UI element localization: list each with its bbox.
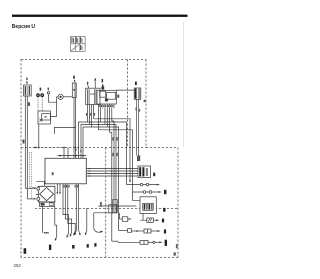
S1 bottom wires — [87, 105, 89, 123]
wire bus B2 — [81, 125, 116, 213]
wire to M1 lower terminal — [27, 198, 33, 200]
drop wire 6 — [86, 208, 87, 234]
capacitor K1 label — [135, 82, 137, 85]
wire bus B1 — [78, 122, 126, 185]
inline connector element on K1 wires — [137, 156, 140, 162]
K1 wire pair down — [136, 99, 138, 155]
arrowed wire to box B6 — [99, 205, 137, 207]
label inside central box — [52, 172, 54, 175]
label Ms on left wires — [23, 140, 25, 144]
curved arrow up right — [94, 229, 101, 233]
M1 terminal circles — [37, 187, 40, 190]
junction dots right column — [129, 180, 131, 182]
K1 wire labels — [136, 108, 137, 111]
arrow on divider left — [33, 147, 36, 149]
K2 bottom pin stubs — [98, 104, 114, 108]
S1 wire label marks — [86, 113, 95, 116]
switch block S1 — [86, 88, 100, 104]
step wire 3 — [68, 222, 75, 234]
legend table text marks — [71, 37, 82, 50]
step wire 1 — [63, 212, 69, 237]
wire up from K2 with arrow — [102, 85, 104, 90]
stub arrowheads — [57, 192, 59, 195]
K2 pin drops — [100, 108, 102, 122]
left rail — [54, 127, 76, 134]
blob on wire above K2 — [101, 87, 104, 90]
small box pair on rail — [113, 200, 118, 213]
wire to M1 upper terminal — [25, 187, 33, 189]
terminal circle A — [36, 93, 40, 97]
internal dashed divider vertical x=105.7 — [105, 148, 107, 258]
wire V1 to lamp loop — [51, 102, 57, 116]
internal dashed divider horizontal y=208.5 — [35, 208, 178, 210]
bundle label marks upper — [112, 137, 117, 156]
right edge small label — [176, 244, 178, 248]
relay K2 sub-box B — [107, 93, 116, 100]
svg-text:Версия U: Версия U — [12, 24, 36, 30]
wire under V1 down — [38, 124, 40, 148]
label on dashed divider x146 — [144, 100, 146, 102]
relay K2 sub-box A — [100, 91, 106, 97]
connector box X5 hatched — [138, 166, 151, 178]
wire bus B5 — [98, 108, 132, 192]
svg-text:252: 252 — [14, 263, 22, 268]
label right of X5 — [153, 173, 155, 177]
connector X1 label — [26, 78, 27, 84]
faint page fold line right — [183, 22, 185, 147]
wire from G1 — [49, 94, 57, 102]
central box bottom pins — [57, 184, 78, 231]
bold region labels bottom — [24, 248, 27, 254]
wire bus B4 — [94, 119, 130, 181]
small sensor G1 label — [48, 88, 49, 91]
main dashed border outline — [21, 60, 178, 258]
stub row with component above B7 — [120, 218, 130, 220]
lamp symbol B1 — [58, 94, 63, 99]
header rule — [12, 15, 188, 17]
M1 plate below — [39, 202, 54, 206]
label on that wire — [100, 202, 102, 205]
corner label bottom right — [174, 252, 176, 255]
junction dots above box — [75, 149, 77, 151]
small sensor G1 — [47, 92, 49, 94]
relay K2 contact — [105, 98, 108, 101]
drop wire 5 tail — [79, 231, 80, 234]
bracket under M1 wires — [44, 232, 49, 233]
wire divider to left arrow — [33, 147, 64, 149]
wire pair from X1 down — [25, 96, 27, 199]
arrow above S1 left — [87, 83, 88, 88]
T-bar rail bottom centre — [94, 212, 117, 214]
fuse F1 arrow — [74, 79, 76, 81]
label right of B6 — [163, 208, 165, 212]
connector X1 hatched box — [24, 85, 32, 96]
wire bus B3 — [83, 127, 119, 231]
relay box B6 — [140, 197, 156, 214]
row C (y=242.3) — [112, 241, 160, 242]
wire lamp to fuse — [63, 96, 72, 98]
wire bus B7 — [112, 108, 114, 121]
arrow above S1 right — [94, 81, 96, 88]
label right of K2 — [117, 95, 119, 98]
dotted wires from circles down — [38, 97, 42, 111]
pin arrowheads right edge — [89, 168, 92, 177]
drop wire 4 tail — [75, 231, 76, 234]
legend table — [71, 36, 86, 51]
bus collector line above central box — [58, 155, 87, 157]
internal dashed divider vertical x=127.5 — [127, 60, 129, 148]
label above K2 arrow — [102, 79, 104, 82]
label after R2 — [164, 190, 166, 194]
terminal circle B — [40, 93, 44, 97]
label above terminal circles — [40, 88, 42, 91]
step wire 2 — [65, 217, 71, 235]
capacitor K1 body — [134, 88, 141, 99]
junction dots on divider — [38, 147, 40, 149]
fuse F1 label — [73, 76, 75, 79]
sub-loop wire under R2 into B6 — [133, 192, 141, 200]
connector row R1 — [127, 184, 158, 186]
wire bus B6 — [110, 108, 112, 241]
short feeders into box top — [63, 148, 65, 159]
dotted pair joining M1 wire — [29, 152, 37, 198]
relay block K2 outer — [97, 90, 116, 104]
inline resistor row R3 — [140, 219, 156, 221]
M1 bottom wires — [43, 206, 57, 239]
fuse wire pair down — [73, 98, 75, 159]
internal dashed divider horizontal y=147.5 — [21, 147, 146, 149]
slant arrowheads bottom centre — [67, 233, 87, 238]
fuse F1 body — [72, 83, 76, 98]
bottom pin label marks — [64, 185, 79, 188]
central box right pin rows — [86, 169, 138, 177]
wire from K2 top right to K1 — [116, 89, 134, 91]
slant arrowhead under M1 — [55, 238, 57, 241]
connector row R2 — [133, 191, 159, 193]
label 2A on wire — [28, 102, 30, 106]
M1 top feed wire — [36, 181, 44, 186]
pin number marks row — [99, 105, 114, 107]
M1 tick marks left — [36, 194, 38, 195]
row B (y=231) — [119, 230, 158, 233]
